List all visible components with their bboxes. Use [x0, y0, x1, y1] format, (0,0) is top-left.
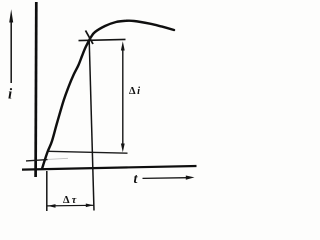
lower reference line left segment — [26, 160, 48, 161]
i-axis label arrow — [9, 9, 13, 83]
svg-text:i: i — [8, 87, 13, 103]
label t with arrow — [134, 172, 195, 187]
svg-text:Δτ: Δτ — [63, 195, 77, 206]
y-axis — [34, 2, 37, 177]
delta-i arrow — [121, 41, 125, 152]
x-axis — [22, 166, 197, 170]
delta-tau left tick — [46, 171, 48, 211]
lower reference line — [49, 151, 128, 153]
delta-tau dimension line — [47, 204, 94, 208]
projection line from cross down to dimension — [89, 40, 94, 211]
curve — [42, 21, 174, 169]
cross mark x at upper point — [86, 31, 94, 45]
svg-text:t: t — [134, 172, 139, 187]
svg-text:Δi: Δi — [129, 86, 140, 97]
lower reference ghost segment — [48, 158, 69, 159]
top reference line — [79, 39, 126, 40]
